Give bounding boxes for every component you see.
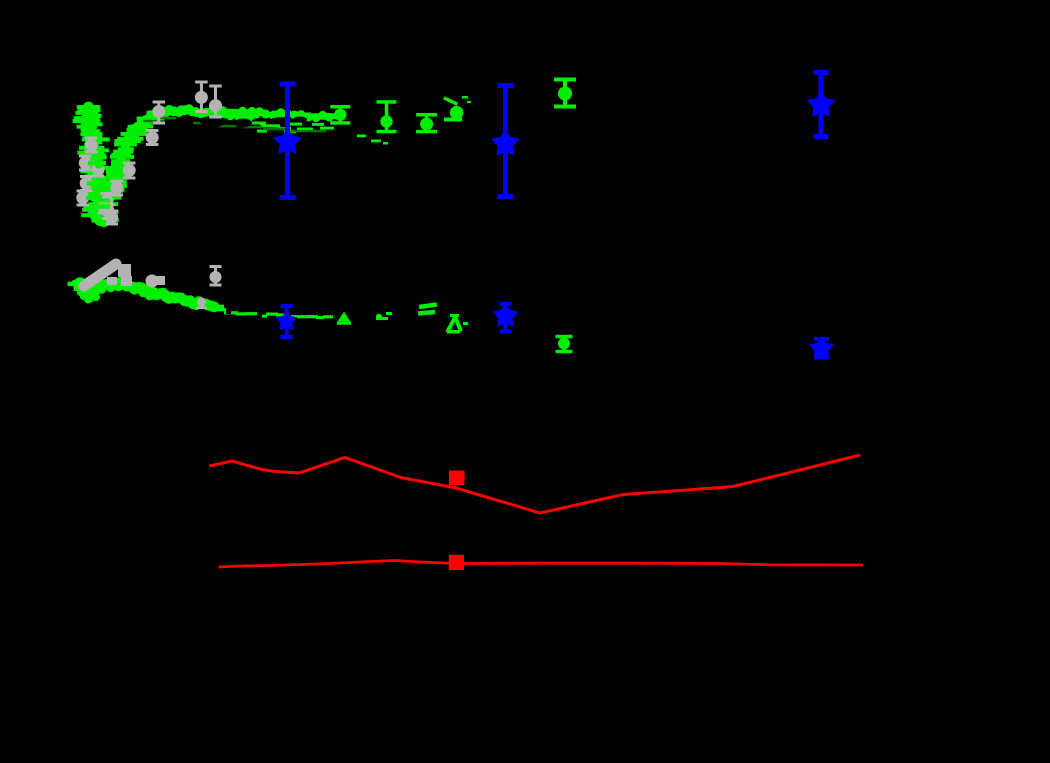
black gaps in band [200, 116, 307, 128]
green series: dark dashes under band [143, 117, 326, 133]
green series: upper flat band [179, 106, 337, 133]
green scribble (456,327) [445, 314, 468, 334]
green series: upper band left column [73, 102, 119, 228]
red curve upper [210, 455, 861, 513]
green series: lower band [68, 277, 225, 312]
green point (564,343) [556, 335, 573, 354]
red square marker lower [449, 555, 464, 570]
gray series lower [84, 264, 222, 309]
green series: lower sparse dashes [216, 308, 333, 319]
green double dash (428,309) [418, 302, 437, 316]
blue star (286,322) [276, 304, 298, 339]
red square marker upper [449, 471, 465, 486]
green bits below G2 [357, 135, 388, 145]
green marker (344,318) [337, 312, 351, 325]
green point (427,124) [416, 113, 437, 133]
green overlay on column grays [86, 159, 110, 209]
green point (340,115) [330, 105, 350, 125]
green series: rising branch [90, 104, 198, 220]
blue star (505,143) [491, 83, 520, 199]
blue star (287,142) [273, 82, 302, 201]
red curve lower [219, 561, 864, 568]
blue star (821,105) [807, 70, 836, 139]
green blobs band bottom edge [77, 288, 100, 304]
green bits (382,318) [376, 312, 392, 320]
green point (386,122) [377, 100, 397, 133]
blue star (821,348) [809, 336, 834, 360]
green scribble (457,113) [443, 96, 471, 122]
blue star (505,316) [493, 302, 519, 334]
gray series upper [76, 81, 222, 226]
black breaks in tail [226, 306, 291, 320]
green point (565,93) [554, 78, 576, 109]
